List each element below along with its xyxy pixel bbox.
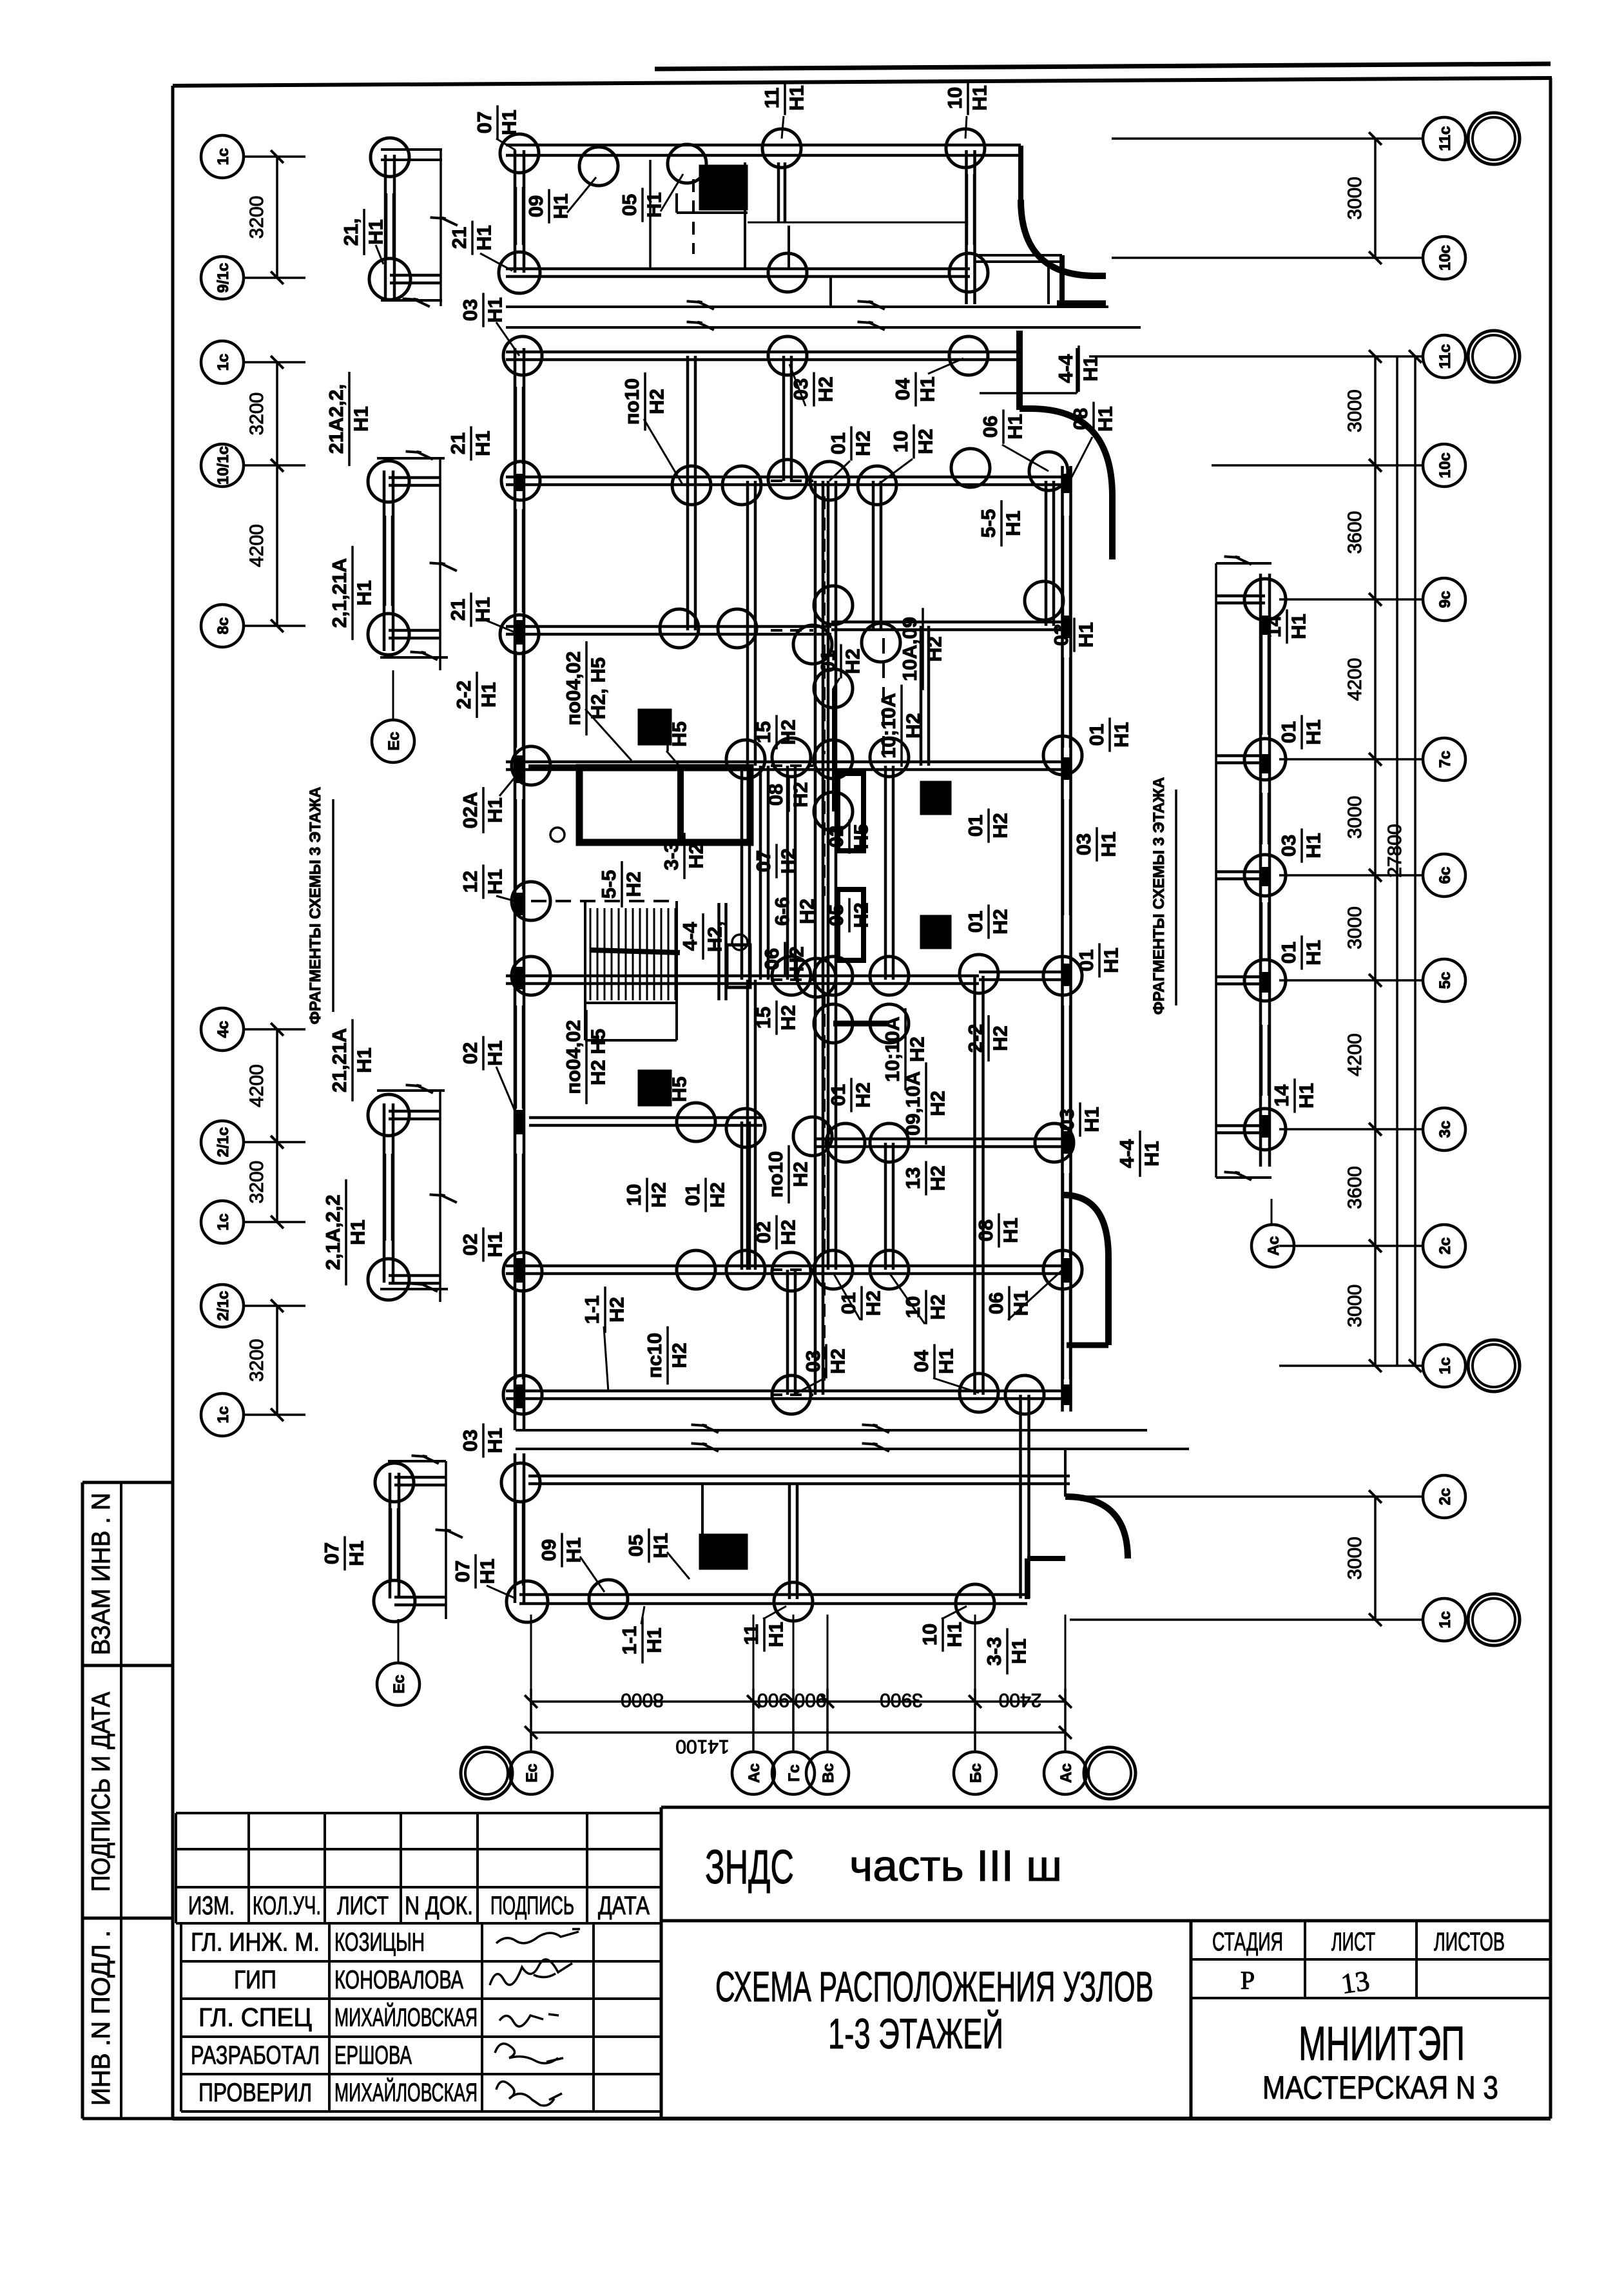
svg-text:03: 03 bbox=[1277, 835, 1300, 857]
svg-text:02А: 02А bbox=[459, 792, 481, 829]
svg-text:15: 15 bbox=[752, 721, 775, 743]
svg-text:ВЗАМ ИНВ . N: ВЗАМ ИНВ . N bbox=[87, 1493, 115, 1655]
svg-text:2,1А,2,2: 2,1А,2,2 bbox=[322, 1194, 344, 1270]
svg-text:21,21А: 21,21А bbox=[328, 1028, 351, 1092]
svg-text:3900: 3900 bbox=[880, 1689, 923, 1711]
svg-text:Н2: Н2 bbox=[777, 1219, 799, 1245]
svg-text:03: 03 bbox=[459, 1430, 481, 1451]
svg-text:Н2: Н2 bbox=[926, 1294, 949, 1320]
svg-text:Н1: Н1 bbox=[483, 1232, 506, 1257]
svg-text:Н2: Н2 bbox=[851, 431, 874, 456]
svg-text:Р: Р bbox=[1241, 1966, 1255, 1995]
svg-text:3-3: 3-3 bbox=[660, 842, 682, 871]
svg-text:ИЗМ.: ИЗМ. bbox=[188, 1892, 235, 1920]
svg-text:4200: 4200 bbox=[1344, 658, 1366, 701]
svg-text:Н2: Н2 bbox=[814, 376, 836, 402]
svg-text:ЛИСТ: ЛИСТ bbox=[1331, 1928, 1375, 1956]
svg-text:02: 02 bbox=[825, 826, 847, 848]
svg-text:1с: 1с bbox=[215, 1214, 232, 1231]
svg-text:10: 10 bbox=[889, 431, 912, 452]
svg-text:Н2: Н2 bbox=[926, 1165, 949, 1191]
svg-text:3200: 3200 bbox=[246, 393, 267, 436]
svg-text:ФРАГМЕНТЫ СХЕМЫ 3 ЭТАЖА: ФРАГМЕНТЫ СХЕМЫ 3 ЭТАЖА bbox=[307, 787, 324, 1025]
svg-text:13: 13 bbox=[902, 1167, 924, 1189]
svg-text:Н1: Н1 bbox=[1097, 831, 1119, 857]
svg-text:Н1: Н1 bbox=[934, 1348, 957, 1374]
svg-text:Н1: Н1 bbox=[476, 1558, 498, 1584]
svg-text:3-3: 3-3 bbox=[983, 1637, 1005, 1666]
svg-text:9/1с: 9/1с bbox=[215, 263, 232, 293]
svg-text:2/1с: 2/1с bbox=[215, 1127, 232, 1158]
svg-text:Н1: Н1 bbox=[1302, 833, 1324, 859]
svg-text:04: 04 bbox=[910, 1350, 933, 1372]
svg-text:1-3 ЭТАЖЕЙ: 1-3 ЭТАЖЕЙ bbox=[828, 2009, 1003, 2057]
svg-text:01: 01 bbox=[827, 432, 849, 454]
svg-text:01: 01 bbox=[837, 1292, 860, 1314]
svg-text:05: 05 bbox=[825, 904, 847, 926]
svg-text:8с: 8с bbox=[215, 617, 232, 635]
svg-text:10с: 10с bbox=[1436, 452, 1454, 478]
svg-text:Н1: Н1 bbox=[498, 110, 520, 135]
svg-text:МАСТЕРСКАЯ N 3: МАСТЕРСКАЯ N 3 bbox=[1262, 2070, 1498, 2106]
svg-text:01: 01 bbox=[1085, 724, 1108, 746]
svg-text:1с: 1с bbox=[1436, 1357, 1454, 1375]
svg-text:4200: 4200 bbox=[246, 1064, 267, 1107]
svg-text:Ас: Ас bbox=[1265, 1236, 1282, 1256]
svg-text:ДАТА: ДАТА bbox=[598, 1892, 650, 1920]
svg-text:07: 07 bbox=[473, 112, 496, 133]
svg-text:21,: 21, bbox=[340, 218, 362, 246]
svg-text:ПРОВЕРИЛ: ПРОВЕРИЛ bbox=[198, 2079, 312, 2107]
svg-text:5с: 5с bbox=[1436, 972, 1454, 989]
svg-text:21: 21 bbox=[447, 599, 469, 621]
svg-text:Н1: Н1 bbox=[364, 219, 387, 245]
svg-text:ГЛ. ИНЖ. М.: ГЛ. ИНЖ. М. bbox=[191, 1928, 320, 1957]
svg-text:Н1: Н1 bbox=[353, 580, 375, 606]
svg-text:ЗНДС: ЗНДС bbox=[705, 1840, 794, 1894]
svg-text:14: 14 bbox=[1270, 1084, 1293, 1107]
svg-text:Н2: Н2 bbox=[647, 1182, 670, 1208]
svg-text:03: 03 bbox=[1056, 1109, 1078, 1131]
svg-text:06: 06 bbox=[985, 1292, 1007, 1314]
svg-text:СХЕМА РАСПОЛОЖЕНИЯ УЗЛОВ: СХЕМА РАСПОЛОЖЕНИЯ УЗЛОВ bbox=[715, 1963, 1154, 2010]
svg-text:Н1: Н1 bbox=[346, 1219, 369, 1245]
svg-text:Н2: Н2 bbox=[785, 946, 807, 972]
svg-text:Н2,: Н2, bbox=[703, 921, 726, 952]
svg-text:Н2: Н2 bbox=[645, 389, 668, 414]
svg-text:3000: 3000 bbox=[1344, 177, 1366, 220]
svg-text:Н1: Н1 bbox=[1110, 722, 1132, 748]
svg-text:пс10: пс10 bbox=[643, 1333, 666, 1378]
svg-text:06: 06 bbox=[760, 948, 783, 970]
svg-text:4с: 4с bbox=[215, 1021, 232, 1038]
svg-text:07: 07 bbox=[752, 850, 775, 872]
svg-text:1с: 1с bbox=[215, 148, 232, 166]
svg-text:Н1: Н1 bbox=[1079, 356, 1101, 382]
svg-text:Н2: Н2 bbox=[902, 713, 924, 739]
svg-text:11с: 11с bbox=[1436, 126, 1454, 151]
svg-text:10с: 10с bbox=[1436, 245, 1454, 271]
svg-text:Н2: Н2 bbox=[789, 1161, 811, 1187]
svg-text:Н1: Н1 bbox=[1074, 622, 1097, 648]
svg-text:Н1: Н1 bbox=[483, 1040, 506, 1066]
svg-text:Н1: Н1 bbox=[1001, 510, 1024, 536]
svg-text:01: 01 bbox=[681, 1184, 704, 1206]
svg-text:3000: 3000 bbox=[1344, 389, 1366, 432]
svg-text:Н1: Н1 bbox=[1302, 940, 1324, 966]
svg-text:Н1: Н1 bbox=[472, 225, 495, 251]
svg-text:2с: 2с bbox=[1436, 1488, 1454, 1506]
svg-text:3200: 3200 bbox=[246, 196, 267, 239]
svg-text:11: 11 bbox=[740, 1624, 762, 1645]
svg-text:ЕРШОВА: ЕРШОВА bbox=[334, 2041, 412, 2070]
svg-text:ЛИСТ: ЛИСТ bbox=[337, 1892, 389, 1920]
svg-text:01: 01 bbox=[964, 911, 987, 933]
svg-text:03: 03 bbox=[802, 1350, 824, 1372]
svg-text:6с: 6с bbox=[1436, 867, 1454, 884]
svg-text:05: 05 bbox=[624, 1535, 647, 1557]
svg-text:5-5: 5-5 bbox=[977, 509, 1000, 538]
svg-text:Н1: Н1 bbox=[1099, 947, 1122, 973]
svg-text:03: 03 bbox=[1050, 624, 1072, 646]
svg-text:ПОДПИСЬ: ПОДПИСЬ bbox=[490, 1892, 574, 1920]
svg-text:900: 900 bbox=[757, 1689, 789, 1711]
svg-text:01: 01 bbox=[643, 1078, 666, 1100]
svg-text:Н2: Н2 bbox=[777, 719, 799, 745]
svg-text:11: 11 bbox=[760, 88, 783, 109]
svg-text:Бс: Бс bbox=[967, 1763, 985, 1783]
svg-text:2,1,21А: 2,1,21А bbox=[328, 558, 351, 628]
svg-text:Н1: Н1 bbox=[549, 193, 572, 219]
svg-text:Н1: Н1 bbox=[483, 869, 506, 895]
svg-text:Н1: Н1 bbox=[349, 406, 372, 432]
svg-text:Н2: Н2 bbox=[926, 1091, 949, 1116]
svg-text:Н2: Н2 bbox=[622, 871, 644, 897]
svg-text:02: 02 bbox=[459, 1042, 481, 1064]
svg-text:Н1: Н1 bbox=[643, 192, 665, 218]
svg-text:4-4: 4-4 bbox=[679, 922, 701, 951]
svg-text:08: 08 bbox=[1069, 408, 1092, 430]
svg-text:03: 03 bbox=[1072, 833, 1095, 855]
svg-text:10;10А: 10;10А bbox=[881, 1016, 904, 1082]
svg-text:3000: 3000 bbox=[1344, 1285, 1366, 1328]
svg-text:10: 10 bbox=[943, 87, 966, 109]
svg-text:Н2: Н2 bbox=[905, 1036, 928, 1062]
svg-text:по10: по10 bbox=[764, 1151, 787, 1198]
svg-text:Н1: Н1 bbox=[353, 1047, 375, 1073]
svg-text:КОЛ.УЧ.: КОЛ.УЧ. bbox=[253, 1892, 321, 1920]
svg-text:Н2: Н2 bbox=[849, 902, 872, 928]
svg-text:Н1: Н1 bbox=[785, 85, 807, 111]
svg-text:Н2: Н2 bbox=[862, 1290, 884, 1316]
svg-text:ИНВ .N ПОДЛ .: ИНВ .N ПОДЛ . bbox=[87, 1930, 115, 2106]
svg-text:01: 01 bbox=[1277, 721, 1300, 743]
svg-text:3200: 3200 bbox=[246, 1339, 267, 1382]
svg-text:Н2: Н2 bbox=[668, 1343, 690, 1368]
svg-text:по04,02: по04,02 bbox=[562, 1020, 585, 1094]
svg-text:9с: 9с bbox=[1436, 591, 1454, 608]
svg-text:Н2: Н2 bbox=[795, 898, 818, 924]
svg-text:02: 02 bbox=[752, 1221, 775, 1243]
svg-text:4200: 4200 bbox=[246, 524, 267, 567]
svg-text:ГЛ. СПЕЦ: ГЛ. СПЕЦ bbox=[198, 2004, 312, 2032]
svg-text:09: 09 bbox=[537, 1539, 560, 1561]
svg-text:14100: 14100 bbox=[675, 1736, 729, 1757]
svg-text:03: 03 bbox=[459, 299, 481, 321]
svg-text:3000: 3000 bbox=[1344, 1537, 1366, 1580]
svg-text:Н1: Н1 bbox=[1009, 1290, 1032, 1316]
svg-text:Н2: Н2 bbox=[605, 1297, 628, 1323]
svg-text:Н1: Н1 bbox=[345, 1540, 367, 1566]
svg-text:Н1: Н1 bbox=[477, 682, 499, 708]
svg-text:Н1: Н1 bbox=[764, 1622, 787, 1647]
svg-text:21: 21 bbox=[448, 227, 470, 249]
svg-text:Н1: Н1 bbox=[471, 431, 494, 456]
svg-text:Н2: Н2 bbox=[923, 636, 945, 662]
svg-text:Н1: Н1 bbox=[483, 797, 506, 823]
svg-text:N ДОК.: N ДОК. bbox=[405, 1892, 473, 1920]
svg-text:07: 07 bbox=[320, 1542, 343, 1564]
svg-text:Н1: Н1 bbox=[968, 85, 991, 111]
svg-text:ПОДПИСЬ И ДАТА: ПОДПИСЬ И ДАТА bbox=[87, 1692, 115, 1892]
svg-text:Н2: Н2 bbox=[989, 1025, 1011, 1051]
svg-text:1-1: 1-1 bbox=[581, 1296, 603, 1325]
svg-text:4-4: 4-4 bbox=[1116, 1139, 1138, 1169]
svg-text:27800: 27800 bbox=[1384, 824, 1406, 877]
svg-text:КОЗИЦЫН: КОЗИЦЫН bbox=[334, 1928, 425, 1957]
svg-text:21: 21 bbox=[447, 432, 469, 454]
svg-text:Н1: Н1 bbox=[1295, 1083, 1317, 1109]
svg-text:Н1: Н1 bbox=[999, 1218, 1021, 1243]
svg-text:03: 03 bbox=[789, 378, 812, 400]
svg-text:10А,09: 10А,09 bbox=[898, 617, 921, 681]
svg-text:2400: 2400 bbox=[999, 1689, 1042, 1711]
svg-text:2-2: 2-2 bbox=[964, 1024, 987, 1053]
svg-text:Н2, Н5: Н2, Н5 bbox=[586, 657, 609, 719]
svg-text:МИХАЙЛОВСКАЯ: МИХАЙЛОВСКАЯ bbox=[334, 2003, 478, 2032]
svg-text:02: 02 bbox=[459, 1234, 481, 1256]
svg-text:ГИП: ГИП bbox=[234, 1966, 276, 1994]
svg-text:Н2: Н2 bbox=[851, 1082, 874, 1108]
svg-text:Ас: Ас bbox=[1058, 1763, 1075, 1783]
svg-text:08: 08 bbox=[974, 1219, 997, 1241]
svg-text:15: 15 bbox=[752, 1007, 775, 1029]
svg-text:08: 08 bbox=[764, 784, 787, 806]
svg-text:1-1: 1-1 bbox=[618, 1626, 641, 1655]
svg-text:Н1: Н1 bbox=[1003, 414, 1026, 440]
svg-text:01: 01 bbox=[827, 1084, 849, 1106]
svg-text:Гс: Гс bbox=[786, 1765, 803, 1782]
svg-text:09: 09 bbox=[525, 195, 547, 217]
svg-text:4200: 4200 bbox=[1344, 1033, 1366, 1076]
svg-text:01: 01 bbox=[964, 815, 987, 837]
svg-text:06: 06 bbox=[979, 416, 1001, 438]
svg-text:Ес: Ес bbox=[385, 732, 403, 750]
svg-text:04: 04 bbox=[891, 378, 914, 400]
svg-text:3600: 3600 bbox=[1344, 1166, 1366, 1209]
svg-text:Н2: Н2 bbox=[989, 813, 1011, 839]
svg-text:Н5: Н5 bbox=[668, 1076, 690, 1102]
svg-text:4-4: 4-4 bbox=[1054, 354, 1077, 383]
svg-text:2-2: 2-2 bbox=[452, 681, 475, 710]
svg-text:10;10А: 10;10А bbox=[877, 693, 900, 759]
svg-text:5-5: 5-5 bbox=[597, 870, 620, 899]
svg-text:ЛИСТОВ: ЛИСТОВ bbox=[1434, 1928, 1505, 1956]
svg-text:Вс: Вс bbox=[820, 1763, 837, 1783]
svg-text:Н1: Н1 bbox=[483, 297, 506, 323]
svg-text:Н1: Н1 bbox=[1302, 719, 1324, 745]
svg-text:7с: 7с bbox=[1436, 751, 1454, 768]
svg-text:СТАДИЯ: СТАДИЯ bbox=[1212, 1928, 1283, 1956]
svg-text:Н5: Н5 bbox=[668, 721, 690, 747]
svg-text:10/1с: 10/1с bbox=[215, 446, 232, 485]
svg-text:КОНОВАЛОВА: КОНОВАЛОВА bbox=[334, 1966, 463, 1994]
svg-text:Н2: Н2 bbox=[789, 782, 811, 808]
svg-text:2/1с: 2/1с bbox=[215, 1291, 232, 1321]
svg-text:01: 01 bbox=[643, 723, 666, 745]
svg-text:Ес: Ес bbox=[523, 1763, 541, 1782]
svg-text:Н2: Н2 bbox=[706, 1182, 728, 1208]
svg-text:МНИИТЭП: МНИИТЭП bbox=[1299, 2017, 1465, 2070]
svg-text:Н1: Н1 bbox=[643, 1627, 665, 1653]
svg-text:13: 13 bbox=[1339, 1965, 1371, 2000]
svg-text:01: 01 bbox=[1075, 949, 1097, 971]
svg-text:Н1: Н1 bbox=[916, 376, 938, 402]
svg-text:6-6: 6-6 bbox=[771, 897, 793, 926]
svg-text:21А2,2,: 21А2,2, bbox=[325, 384, 347, 454]
svg-text:3000: 3000 bbox=[1344, 796, 1366, 839]
svg-text:Н1: Н1 bbox=[1287, 614, 1310, 639]
svg-text:Н1: Н1 bbox=[943, 1622, 965, 1647]
svg-text:3000: 3000 bbox=[1344, 906, 1366, 949]
svg-text:8000: 8000 bbox=[621, 1689, 664, 1711]
svg-text:2с: 2с bbox=[1436, 1238, 1454, 1255]
svg-text:Н1: Н1 bbox=[1080, 1107, 1103, 1132]
svg-text:12: 12 bbox=[459, 871, 481, 893]
svg-text:Н1: Н1 bbox=[1140, 1141, 1163, 1167]
svg-text:3с: 3с bbox=[1436, 1121, 1454, 1138]
svg-text:Ас: Ас bbox=[746, 1763, 763, 1783]
svg-text:07: 07 bbox=[451, 1560, 474, 1582]
svg-text:1с: 1с bbox=[1436, 1611, 1454, 1629]
svg-text:Ес: Ес bbox=[391, 1674, 408, 1693]
svg-text:900: 900 bbox=[794, 1689, 826, 1711]
svg-text:Н2: Н2 bbox=[914, 429, 936, 454]
svg-text:Н1: Н1 bbox=[483, 1428, 506, 1453]
svg-text:по04,02: по04,02 bbox=[562, 651, 585, 725]
svg-text:РАЗРАБОТАЛ: РАЗРАБОТАЛ bbox=[191, 2041, 320, 2070]
svg-text:Н2 Н5: Н2 Н5 bbox=[586, 1029, 609, 1085]
svg-text:Н2: Н2 bbox=[777, 1005, 799, 1031]
svg-text:11с: 11с bbox=[1436, 344, 1454, 369]
svg-text:по10: по10 bbox=[621, 378, 643, 425]
svg-text:Н2: Н2 bbox=[826, 1348, 849, 1374]
svg-text:Н5: Н5 bbox=[849, 824, 872, 849]
svg-text:Н2: Н2 bbox=[684, 843, 707, 869]
svg-text:1с: 1с bbox=[215, 354, 232, 371]
svg-text:Н1: Н1 bbox=[1007, 1638, 1030, 1664]
svg-text:1с: 1с bbox=[215, 1406, 232, 1424]
svg-text:05: 05 bbox=[618, 194, 641, 216]
svg-text:Н2: Н2 bbox=[989, 909, 1011, 935]
svg-text:01: 01 bbox=[817, 650, 839, 672]
svg-text:3600: 3600 bbox=[1344, 511, 1366, 554]
svg-text:01: 01 bbox=[1277, 942, 1300, 964]
svg-text:Н1: Н1 bbox=[1094, 406, 1116, 432]
svg-text:часть III ш: часть III ш bbox=[849, 1841, 1062, 1890]
svg-text:10: 10 bbox=[623, 1184, 645, 1206]
svg-text:3200: 3200 bbox=[246, 1161, 267, 1204]
svg-text:ФРАГМЕНТЫ СХЕМЫ 3 ЭТАЖА: ФРАГМЕНТЫ СХЕМЫ 3 ЭТАЖА bbox=[1150, 777, 1168, 1015]
svg-text:10: 10 bbox=[918, 1624, 941, 1645]
svg-text:Н2: Н2 bbox=[777, 848, 799, 874]
svg-text:МИХАЙЛОВСКАЯ: МИХАЙЛОВСКАЯ bbox=[334, 2077, 478, 2107]
svg-text:Н2: Н2 bbox=[841, 648, 864, 674]
